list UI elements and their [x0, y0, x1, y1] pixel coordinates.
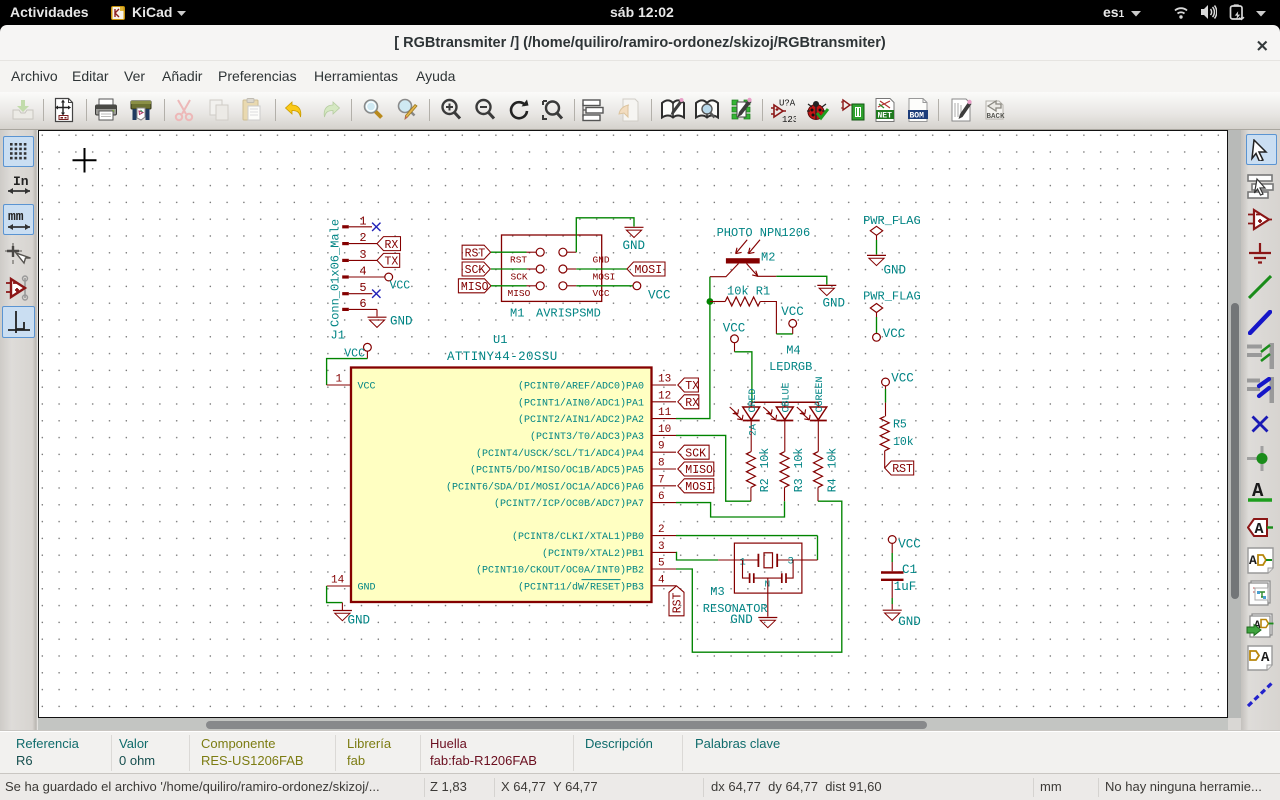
svg-text:M2: M2	[761, 251, 775, 265]
svg-text:123: 123	[782, 115, 796, 123]
svg-text:MOSI: MOSI	[685, 481, 713, 494]
svg-text:GND: GND	[884, 263, 907, 277]
svg-text:(PCINT8/CLKI/XTAL1)PB0: (PCINT8/CLKI/XTAL1)PB0	[512, 531, 644, 543]
svg-text:4: 4	[658, 574, 665, 586]
svg-text:VCC: VCC	[891, 371, 914, 385]
svg-text:PWR_FLAG: PWR_FLAG	[863, 289, 921, 303]
svg-text:TX: TX	[385, 256, 399, 269]
svg-text:M3: M3	[710, 585, 724, 599]
svg-text:2: 2	[359, 231, 366, 245]
svg-text:VCC: VCC	[883, 327, 906, 341]
svg-text:J1: J1	[331, 329, 345, 343]
svg-text:In: In	[13, 174, 29, 189]
svg-text:(PCINT1/AIN0/ADC1)PA1: (PCINT1/AIN0/ADC1)PA1	[518, 397, 644, 409]
svg-text:6: 6	[359, 297, 366, 311]
svg-text:3: 3	[359, 248, 366, 262]
svg-text:PWR_FLAG: PWR_FLAG	[863, 214, 921, 228]
svg-text:M4: M4	[786, 343, 800, 357]
svg-text:R5: R5	[893, 419, 907, 432]
svg-text:MISO: MISO	[508, 288, 531, 299]
svg-text:VCC: VCC	[723, 322, 746, 336]
svg-text:8: 8	[658, 458, 665, 470]
svg-text:MOSI: MOSI	[593, 271, 616, 282]
svg-text:11: 11	[658, 407, 672, 419]
svg-text:GND: GND	[593, 255, 610, 266]
svg-text:(PCINT7/ICP/OC0B/ADC7)PA7: (PCINT7/ICP/OC0B/ADC7)PA7	[494, 498, 644, 510]
svg-text:R2: R2	[759, 478, 772, 492]
svg-text:(PCINT10/CKOUT/OC0A/INT0)PB2: (PCINT10/CKOUT/OC0A/INT0)PB2	[476, 565, 644, 577]
svg-text:2: 2	[658, 524, 665, 536]
svg-text:4: 4	[359, 265, 366, 279]
svg-text:12: 12	[658, 390, 671, 402]
svg-text:RST: RST	[465, 247, 486, 260]
svg-text:Conn_01x06_Male: Conn_01x06_Male	[329, 219, 343, 327]
svg-text:CGREEN: CGREEN	[815, 376, 826, 412]
svg-text:10k: 10k	[893, 436, 914, 449]
svg-text:ATTINY44-20SSU: ATTINY44-20SSU	[447, 350, 558, 364]
svg-text:CBLUE: CBLUE	[782, 382, 793, 412]
svg-text:R4: R4	[826, 478, 839, 492]
svg-text:GND: GND	[623, 239, 646, 253]
svg-text:13: 13	[658, 374, 671, 386]
svg-text:CRED: CRED	[748, 388, 759, 412]
svg-text:SCK: SCK	[685, 447, 706, 460]
svg-text:5: 5	[658, 558, 665, 570]
svg-text:mm: mm	[8, 209, 24, 224]
svg-text:10k R1: 10k R1	[727, 284, 770, 298]
svg-text:GND: GND	[358, 583, 376, 594]
svg-text:U?A: U?A	[779, 99, 796, 109]
svg-text:VCC: VCC	[898, 537, 921, 551]
svg-text:A: A	[1261, 650, 1270, 666]
svg-text:(PCINT5/DO/MISO/OC1B/ADC5)PA5: (PCINT5/DO/MISO/OC1B/ADC5)PA5	[470, 465, 644, 477]
svg-text:1uF: 1uF	[894, 580, 917, 594]
svg-text:SCK: SCK	[465, 264, 486, 277]
svg-text:MISO: MISO	[461, 281, 489, 294]
svg-text:TX: TX	[685, 380, 699, 393]
svg-text:BOM: BOM	[910, 112, 925, 121]
svg-text:VCC: VCC	[358, 382, 376, 393]
svg-text:3: 3	[658, 541, 665, 553]
svg-text:R3: R3	[793, 478, 806, 492]
svg-text:VCC: VCC	[593, 288, 610, 299]
svg-text:(PCINT4/USCK/SCL/T1/ADC4)PA4: (PCINT4/USCK/SCL/T1/ADC4)PA4	[476, 448, 644, 460]
svg-text:RX: RX	[685, 397, 699, 410]
svg-text:GND: GND	[348, 614, 371, 628]
svg-text:RX: RX	[385, 239, 399, 252]
svg-text:9: 9	[658, 441, 665, 453]
svg-text:A: A	[1254, 521, 1263, 537]
svg-text:LEDRGB: LEDRGB	[769, 360, 812, 374]
svg-text:10: 10	[658, 424, 671, 436]
svg-text:GND: GND	[730, 613, 753, 627]
svg-text:VCC: VCC	[390, 280, 411, 293]
svg-text:(PCINT3/T0/ADC3)PA3: (PCINT3/T0/ADC3)PA3	[530, 431, 644, 443]
svg-text:10k: 10k	[759, 448, 772, 469]
svg-text:VCC: VCC	[781, 305, 804, 319]
svg-text:RST: RST	[510, 255, 527, 266]
svg-text:U1: U1	[493, 333, 507, 347]
svg-text:(PCINT6/SDA/DI/MOSI/OC1A/ADC6): (PCINT6/SDA/DI/MOSI/OC1A/ADC6)PA6	[446, 481, 644, 493]
svg-text:VCC: VCC	[648, 289, 671, 303]
svg-text:MOSI: MOSI	[635, 264, 663, 277]
svg-text:C1: C1	[902, 563, 917, 577]
svg-text:MISO: MISO	[685, 464, 713, 477]
svg-text:(PCINT11/dW/RESET)PB3: (PCINT11/dW/RESET)PB3	[518, 581, 644, 593]
svg-text:1: 1	[359, 214, 366, 228]
svg-text:(PCINT9/XTAL2)PB1: (PCINT9/XTAL2)PB1	[542, 548, 644, 560]
svg-text:GND: GND	[898, 615, 921, 629]
svg-text:10k: 10k	[826, 448, 839, 469]
svg-text:SCK: SCK	[511, 271, 528, 282]
svg-text:M1: M1	[510, 307, 524, 321]
svg-text:10k: 10k	[793, 448, 806, 469]
svg-text:RST: RST	[672, 592, 685, 613]
svg-text:6: 6	[658, 491, 665, 503]
svg-text:GND: GND	[390, 315, 413, 329]
svg-text:NET: NET	[878, 112, 893, 121]
svg-text:5: 5	[359, 281, 366, 295]
svg-text:7: 7	[658, 474, 665, 486]
svg-text:2A: 2A	[749, 424, 760, 436]
svg-text:(PCINT0/AREF/ADC0)PA0: (PCINT0/AREF/ADC0)PA0	[518, 381, 644, 393]
svg-text:PHOTO NPN1206: PHOTO NPN1206	[717, 226, 811, 240]
svg-text:AVRISPSMD: AVRISPSMD	[536, 307, 601, 321]
svg-text:14: 14	[331, 575, 345, 587]
svg-text:A: A	[1249, 553, 1257, 568]
svg-text:BACK: BACK	[987, 113, 1006, 121]
svg-text:(PCINT2/AIN1/ADC2)PA2: (PCINT2/AIN1/ADC2)PA2	[518, 414, 644, 426]
svg-text:1: 1	[336, 374, 343, 386]
svg-text:RST: RST	[892, 463, 913, 476]
svg-text:GND: GND	[823, 297, 846, 311]
